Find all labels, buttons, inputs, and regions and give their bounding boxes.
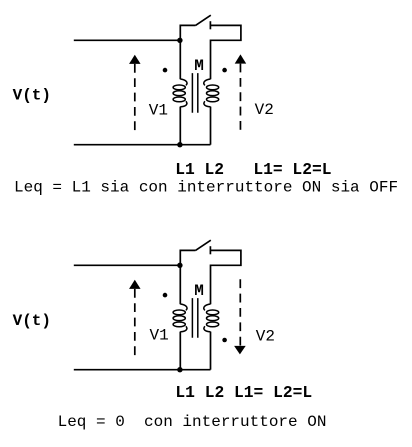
svg-text:V1: V1 [149,102,168,120]
arrow V2 (up) [235,54,247,130]
svg-text:Leq = 0 con interruttore ON: Leq = 0 con interruttore ON [58,413,327,431]
wire bottom horizontal [74,369,211,371]
wire top horizontal from source to junction [74,39,180,41]
wire left vertical up to switch level [180,250,195,304]
junction dot top (bottom circuit) [177,263,182,268]
svg-text:V2: V2 [255,101,274,119]
svg-text:M: M [194,57,204,75]
inductor L1 coil [180,79,187,85]
wire switch to right hook [210,250,241,304]
junction dot top [177,38,182,43]
svg-text:V(t): V(t) [13,312,51,330]
switch S2 contact tick [209,246,211,254]
transformer core lines (bottom) [192,298,197,338]
wire top horizontal from source to junction [74,264,180,266]
inductor L2 coil (bottom) [204,304,211,310]
svg-text:M: M [194,282,204,300]
junction dot bottom [177,142,182,147]
arrow V1 (up) [129,55,141,131]
arrow V2 (down, bottom circuit) [234,279,246,354]
transformer core lines [192,73,197,113]
svg-text:Leq = L1 sia con interruttore: Leq = L1 sia con interruttore ON sia OFF [14,179,398,197]
wire switch to right hook [210,25,241,79]
arrow V1 (up, bottom circuit) [129,280,141,356]
switch S1 blade [196,15,211,25]
polarity dot L2 [222,68,227,73]
wire bottom horizontal [74,144,211,146]
polarity dot L2 (bottom circuit, lower) [222,338,227,343]
junction dot bottom (bottom circuit) [177,367,182,372]
polarity dot L1 [163,68,168,73]
svg-text:V1: V1 [150,327,169,345]
svg-text:L1 L2 L1= L2=L: L1 L2 L1= L2=L [175,383,312,402]
svg-text:V(t): V(t) [13,87,51,105]
polarity dot L1 (bottom circuit) [163,293,168,298]
svg-text:V2: V2 [256,328,275,346]
inductor L2 coil [204,79,211,85]
inductor L1 coil (bottom) [180,304,187,310]
wire left vertical up to switch level [180,25,195,79]
switch S2 blade [196,240,211,250]
svg-text:L1 L2 L1= L2=L: L1 L2 L1= L2=L [175,160,331,179]
switch S1 contact tick [209,21,211,29]
